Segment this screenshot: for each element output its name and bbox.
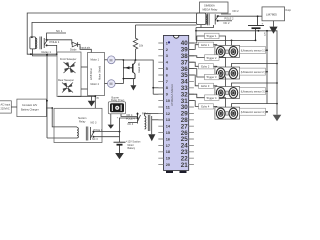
svg-text:Reset Pin: Reset Pin [138,62,141,73]
junction dots net A [31,36,33,38]
svg-text:19: 19 [166,157,170,161]
chip U1 ATmega [164,35,189,173]
svg-text:Echo 3: Echo 3 [201,84,210,88]
svg-text:Input pin: Input pin [81,47,91,50]
AC input box [0,101,11,113]
svg-text:(Ultrasonic sensor 4 ): (Ultrasonic sensor 4 ) [241,110,266,114]
regulator LM7805 [262,7,285,21]
ground under battery [115,153,124,159]
wire sensor 3 vcc to rail [266,90,268,92]
svg-text:NC 4: NC 4 [128,123,134,126]
svg-text:Trigger 3: Trigger 3 [206,75,217,79]
wire echo 4 to sensor [214,105,217,108]
svg-text:15: 15 [166,131,170,135]
wire to relay3 coil bottom [47,137,77,139]
svg-text:(Ultrasonic sensor 1 ): (Ultrasonic sensor 1 ) [241,48,266,52]
wire POLE2 [218,15,262,17]
wire buzzer left pin to ground [110,114,112,125]
svg-text:+: + [262,22,264,26]
svg-text:Motor 2: Motor 2 [91,83,100,86]
wire mid rail y30.8 [196,31,277,115]
svg-text:20: 20 [166,163,170,167]
fan rear sweeper [62,83,73,93]
trigger 2 label box [205,55,220,61]
ground under LM7805 [273,21,275,27]
wire NC2 [218,20,232,22]
ultrasonic sensor 2 module [215,67,240,79]
svg-text:LM7805: LM7805 [266,13,277,17]
relay K3 coil [77,127,88,141]
motor M2 [105,80,124,88]
wire net A top [27,13,199,138]
chip pin stubs and numbers [158,43,194,165]
wire chip to echo 4 [189,101,199,107]
relay K3 contacts [91,127,95,140]
relay K2 contacts [215,14,218,24]
wire NC1 [47,33,66,40]
svg-text:Relay 1: Relay 1 [42,50,52,54]
suction relay box [54,108,102,142]
svg-text:8: 8 [166,86,168,90]
wire NC3 right [94,136,120,138]
relay K2 coil [196,13,214,28]
transistor Q1 [123,60,135,79]
wire collector rail [123,60,153,94]
svg-text:POLE 4: POLE 4 [126,118,135,121]
svg-text:Echo 1: Echo 1 [201,43,210,47]
buzzer box [108,102,125,114]
svg-text:M: M [110,58,113,62]
svg-text:NC 1: NC 1 [56,29,63,33]
wire sensor 4 gnd to rail [232,104,278,108]
wire motor gate rail [122,60,124,84]
wire sweeper bottom to box [58,96,95,108]
echo 1 label box [199,42,214,47]
wire sensor 2 gnd to rail [232,64,278,68]
svg-text:17: 17 [166,144,170,148]
diode D1 [70,42,91,52]
svg-text:Trigger 2: Trigger 2 [206,56,217,60]
wire sensor 4 vcc to rail [266,111,268,113]
wire chip to trigger 1 [189,36,205,43]
wire sweeper to shield 1 [81,66,88,68]
svg-text:Relay: Relay [79,121,86,124]
motor M1 [105,56,124,64]
svg-text:6: 6 [166,73,168,77]
wire echo 2 to sensor [214,65,217,68]
trigger 3 label box [205,74,220,80]
echo 2 label box [199,64,214,69]
svg-text:AC Input: AC Input [1,104,11,107]
svg-text:16: 16 [166,137,170,141]
svg-text:11: 11 [166,105,170,109]
svg-text:18: 18 [166,150,170,154]
wire resistor to relay2 coil [136,24,197,26]
wire chip to trigger 2 [189,56,205,58]
chip pin1 dot [168,41,170,43]
svg-text:9: 9 [166,93,168,97]
svg-text:Rear Sweeper: Rear Sweeper [58,79,74,82]
svg-text:MEGA Relay: MEGA Relay [203,8,219,12]
trigger 1 label box [205,33,220,39]
svg-text:21: 21 [181,162,188,169]
svg-text:(Ultrasonic sensor 2 ): (Ultrasonic sensor 2 ) [241,70,266,74]
svg-text:2: 2 [166,48,168,52]
wire charger out 1 [45,100,48,102]
wire chip to trigger 4 [189,94,205,98]
wire buzzer right pin to NO4 [121,114,138,117]
svg-text:Front Sweeper: Front Sweeper [60,58,77,61]
svg-text:5: 5 [166,67,168,71]
svg-text:(Ultrasonic sensor 3 ): (Ultrasonic sensor 3 ) [241,89,266,93]
svg-text:Pt: Pt [97,97,100,100]
svg-text:SIM900A: SIM900A [204,4,215,8]
GSM relay box [200,2,229,13]
wire echo 3 to sensor [214,85,217,88]
wire trigger 3 to sensor [219,77,226,87]
label ultrasonic sensor 4 [240,108,266,115]
ground under motor shield [91,96,93,100]
wire sensor 2 vcc to rail [266,71,268,73]
wire to chip pin8 [153,87,163,89]
wire echo 1 to sensor [214,44,217,47]
svg-text:13: 13 [166,118,170,122]
wire chip to echo 2 [189,62,199,66]
svg-text:1: 1 [166,41,168,45]
wire POLE4 to battery [120,118,138,142]
wire AC to charger [11,106,17,108]
svg-text:Battery: Battery [128,147,136,150]
svg-text:Echo 2: Echo 2 [201,65,210,69]
motor shield box U2 [88,53,105,96]
svg-text:12: 12 [166,112,170,116]
ultrasonic sensor 3 module [215,87,240,99]
label ultrasonic sensor 3 [240,88,266,95]
svg-text:POLE 1: POLE 1 [50,40,60,44]
label ultrasonic sensor 2 [240,68,266,75]
ground under Q1 [133,79,135,86]
svg-text:NC 3: NC 3 [92,138,98,141]
wire net B top [32,22,197,37]
svg-text:NO 2: NO 2 [233,9,240,13]
wire trigger 2 to sensor [219,58,226,68]
wire vcc rail y40.4 [196,39,256,41]
svg-text:NC 2: NC 2 [224,21,230,25]
svg-text:220VAC: 220VAC [1,108,10,111]
svg-text:M: M [110,82,113,86]
svg-text:Motor Shield: Motor Shield [99,65,102,80]
battery B2 12V suction [114,142,126,153]
svg-text:Battery Charger: Battery Charger [21,109,39,112]
svg-text:12V: 12V [265,32,267,36]
echo 4 label box [199,104,214,109]
svg-text:Relay (Free): Relay (Free) [111,99,124,102]
svg-text:Constant 12V: Constant 12V [22,104,37,107]
svg-text:Trigger 1: Trigger 1 [206,34,217,38]
relay K4 contacts [138,113,141,124]
label ultrasonic sensor 1 [240,47,266,54]
wire chip to echo 3 [189,75,199,86]
svg-text:Motor 1: Motor 1 [91,59,100,62]
wire POLE1 [47,40,72,45]
wire sensor 1 vcc to rail [266,49,268,51]
svg-text:POLE 2: POLE 2 [224,17,234,21]
ultrasonic sensor 1 module [215,45,240,57]
svg-text:Trigger 4: Trigger 4 [206,96,217,100]
wire to chip pin9 [153,93,163,95]
battery B1 [248,16,264,40]
svg-text:Output: Output [285,9,291,12]
svg-text:Diode: Diode [70,49,77,52]
wire charger out 2 [46,108,77,127]
trigger 4 label box [205,95,220,101]
echo 3 label box [199,83,214,88]
svg-text:ATMEGA MEGA: ATMEGA MEGA [170,84,174,106]
ground right rail [273,115,282,122]
relay K1 coil [30,37,57,56]
svg-text:7: 7 [166,80,168,84]
svg-text:10: 10 [166,99,170,103]
wire chip to trigger 3 [189,69,205,77]
charger box [17,99,47,117]
wire trigger 4 to sensor [219,98,226,107]
wire sweeper to shield 2 [81,88,88,90]
wire NC4 [128,122,138,124]
relay K1 contacts [44,38,47,48]
svg-text:Echo 4: Echo 4 [201,105,210,109]
sweeper box [57,52,81,97]
svg-text:NO 3: NO 3 [91,122,97,125]
wire sensor 3 gnd to rail [232,83,278,87]
wire trigger 1 to sensor [219,36,226,45]
fan front sweeper [64,62,76,73]
ultrasonic sensor 4 module [215,107,240,119]
ground under K4 [148,134,155,141]
svg-text:3: 3 [166,54,168,58]
resistor R1 [133,25,137,60]
wire POLE3 right [94,131,120,133]
wire sensor1 vcc drop [231,40,233,45]
svg-text:L298 Driver: L298 Driver [90,68,93,80]
wire chip to echo 1 [189,45,199,50]
